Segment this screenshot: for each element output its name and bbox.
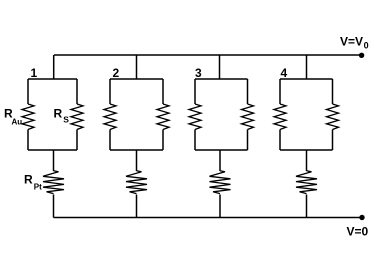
wire left branch 3 xyxy=(194,79,196,104)
wire stub down branch 4 xyxy=(306,150,308,171)
resistor branch 2 right xyxy=(157,104,169,130)
wire stub down branch 2 xyxy=(136,150,138,171)
svg-text:R: R xyxy=(24,173,33,187)
terminal dot V=0 xyxy=(359,215,364,220)
wire bottom sub-rail branch 4 xyxy=(280,149,333,151)
svg-text:3: 3 xyxy=(195,66,202,80)
wire left branch 2 lower xyxy=(109,130,111,151)
resistor branch 4 bottom xyxy=(296,171,317,194)
resistor branch 3 left xyxy=(189,104,201,130)
wire left branch 1 xyxy=(27,79,29,104)
wire left branch 3 lower xyxy=(194,130,196,151)
wire stub branch 3 xyxy=(219,55,221,79)
wire bottom sub-rail branch 1 xyxy=(28,149,77,151)
resistor RAu xyxy=(22,104,34,130)
bottom rail V=0 xyxy=(54,217,363,219)
resistor branch 2 bottom xyxy=(126,171,147,194)
resistor RS xyxy=(71,104,83,130)
wire right branch 2 lower xyxy=(162,130,164,151)
svg-text:0: 0 xyxy=(364,41,369,51)
wire top sub-rail branch 3 xyxy=(195,78,248,80)
wire right branch 4 lower xyxy=(332,130,334,151)
svg-text:4: 4 xyxy=(281,66,288,80)
terminal dot V0 xyxy=(359,53,364,58)
wire left branch 4 xyxy=(279,79,281,104)
wire to bottom rail branch 4 xyxy=(306,195,308,218)
resistor RPt xyxy=(43,171,64,194)
wire right branch 4 xyxy=(332,79,334,104)
wire bottom sub-rail branch 2 xyxy=(110,149,163,151)
svg-text:1: 1 xyxy=(31,66,38,80)
wire stub down branch 3 xyxy=(219,150,221,171)
resistor branch 2 left xyxy=(104,104,116,130)
svg-text:Pt: Pt xyxy=(34,183,42,192)
wire to bottom rail branch 1 xyxy=(53,195,55,218)
wire right branch 3 xyxy=(247,79,249,104)
resistor branch 4 left xyxy=(274,104,286,130)
wire top sub-rail branch 4 xyxy=(280,78,333,80)
wire top sub-rail branch 1 xyxy=(28,78,77,80)
top rail V=V0 xyxy=(54,54,362,56)
wire stub branch 4 xyxy=(306,55,308,79)
wire stub branch 2 xyxy=(136,55,138,79)
wire left branch 4 lower xyxy=(279,130,281,151)
resistor branch 3 bottom xyxy=(210,171,231,194)
wire left branch 1 lower xyxy=(27,130,29,151)
resistor branch 3 right xyxy=(242,104,254,130)
wire stub down branch 1 xyxy=(53,150,55,171)
wire bottom sub-rail branch 3 xyxy=(195,149,248,151)
wire to bottom rail branch 2 xyxy=(136,195,138,218)
svg-text:Au: Au xyxy=(12,118,23,127)
svg-text:V=0: V=0 xyxy=(347,225,369,239)
wire right branch 1 xyxy=(76,79,78,104)
svg-text:R: R xyxy=(54,106,63,120)
wire top sub-rail branch 2 xyxy=(110,78,163,80)
resistor branch 4 right xyxy=(327,104,339,130)
svg-text:2: 2 xyxy=(113,66,120,80)
wire stub branch 1 xyxy=(53,55,55,79)
wire right branch 3 lower xyxy=(247,130,249,151)
wire right branch 1 lower xyxy=(76,130,78,151)
wire to bottom rail branch 3 xyxy=(219,195,221,218)
svg-text:S: S xyxy=(63,114,69,124)
wire right branch 2 xyxy=(162,79,164,104)
wire left branch 2 xyxy=(109,79,111,104)
svg-text:V=V: V=V xyxy=(340,35,363,49)
